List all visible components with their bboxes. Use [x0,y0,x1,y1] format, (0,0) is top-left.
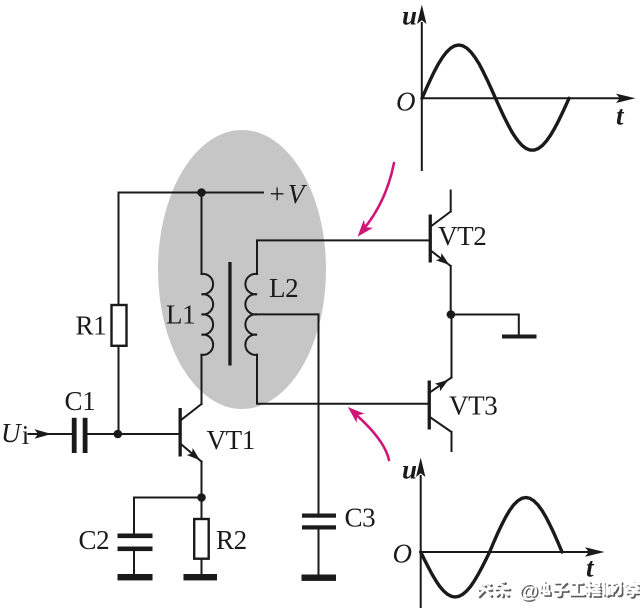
svg-text:VT2: VT2 [438,221,486,251]
svg-text:VT1: VT1 [207,425,255,455]
svg-text:U: U [1,418,22,448]
svg-text:@: @ [519,581,539,603]
svg-text:R1: R1 [76,311,107,341]
svg-text:O: O [396,87,415,117]
svg-text:i: i [22,420,29,450]
svg-text:O: O [393,539,412,569]
svg-text:L1: L1 [166,300,195,330]
svg-text:C2: C2 [79,525,110,555]
svg-text:C1: C1 [65,386,96,416]
svg-text:L2: L2 [269,273,298,303]
svg-text:C3: C3 [345,503,376,533]
svg-text:VT3: VT3 [449,391,497,421]
svg-text:u: u [402,1,417,31]
svg-text:R2: R2 [216,525,247,555]
svg-text:+V: +V [270,179,308,209]
svg-text:u: u [402,455,417,485]
